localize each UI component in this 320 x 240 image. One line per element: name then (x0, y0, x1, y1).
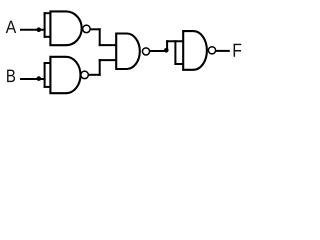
wire U1 bottom input stub (44, 36, 51, 38)
output label F (234, 44, 242, 57)
inversion bubble U3 (142, 48, 149, 55)
wire U2 bottom input stub (44, 86, 51, 88)
nand gate U3 body (116, 34, 140, 70)
wire fork vertical for U2 inputs (44, 62, 46, 88)
wire into U3 top input (99, 44, 117, 46)
junction dot on A wire (37, 27, 42, 32)
inversion bubble U4 (208, 47, 215, 54)
wire U2 output horizontal (89, 74, 101, 76)
inversion bubble U1 (83, 25, 91, 33)
inversion bubble U2 (81, 71, 89, 79)
wire U3 output (150, 50, 168, 52)
wire into U3 bottom input (99, 59, 117, 61)
wire U1 top input stub (44, 12, 51, 14)
wire U4 output to F (216, 50, 230, 52)
wire U4 top input stub (166, 40, 184, 42)
wire U1 output step vertical (99, 28, 101, 46)
wire U2 output step vertical (99, 59, 101, 76)
nand gate U1 body (50, 11, 81, 45)
junction dot on B wire (37, 76, 42, 81)
wire branch vertical up to U4 top input (166, 40, 168, 51)
wire U2 top input stub (44, 62, 51, 64)
wire fork vertical for U4 inputs (174, 40, 176, 65)
input label B (7, 70, 15, 83)
wire U4 bottom input stub (174, 63, 184, 65)
junction dot on U3 output wire (164, 48, 169, 53)
wire fork vertical for U1 inputs (44, 12, 46, 38)
wire from A (20, 29, 46, 31)
nand gate U2 body (50, 57, 80, 93)
wire from B (20, 78, 46, 80)
nand gate U4 body (183, 31, 207, 70)
wire U1 output horizontal (90, 28, 100, 30)
input label A (6, 21, 17, 33)
